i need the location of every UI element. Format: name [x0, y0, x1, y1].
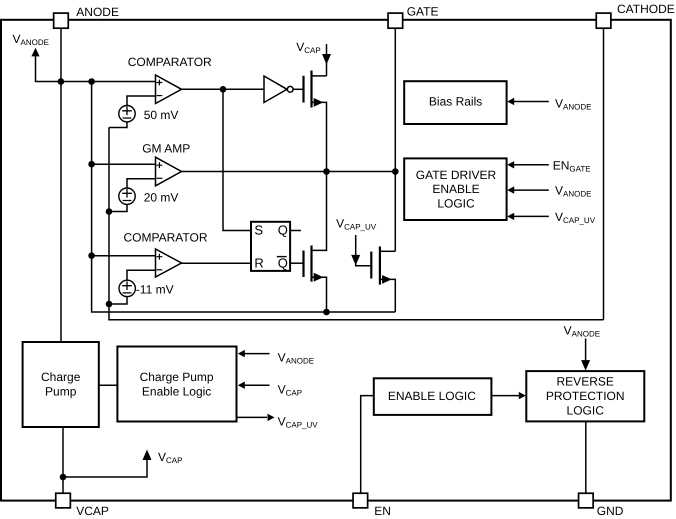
svg-text:LOGIC: LOGIC [567, 404, 605, 418]
svg-text:EN: EN [374, 504, 391, 518]
svg-text:GATE DRIVER: GATE DRIVER [416, 168, 497, 182]
svg-text:Q: Q [278, 255, 288, 270]
svg-text:R: R [254, 255, 263, 270]
svg-text:20 mV: 20 mV [144, 190, 179, 204]
svg-text:VCAP: VCAP [76, 504, 109, 518]
svg-text:GM AMP: GM AMP [142, 141, 190, 155]
svg-text:Bias Rails: Bias Rails [429, 95, 482, 109]
svg-text:REVERSE: REVERSE [557, 374, 614, 388]
svg-text:ENABLE LOGIC: ENABLE LOGIC [388, 389, 476, 403]
svg-text:Charge: Charge [41, 370, 81, 384]
svg-text:CATHODE: CATHODE [617, 2, 675, 16]
svg-text:COMPARATOR: COMPARATOR [128, 55, 212, 69]
svg-text:ANODE: ANODE [76, 5, 119, 19]
svg-text:GND: GND [597, 504, 624, 518]
svg-text:LOGIC: LOGIC [437, 197, 475, 211]
svg-text:Charge Pump: Charge Pump [140, 370, 214, 384]
svg-text:Pump: Pump [45, 385, 77, 399]
svg-text:PROTECTION: PROTECTION [546, 389, 625, 403]
svg-text:GATE: GATE [407, 5, 439, 19]
svg-text:-11 mV: -11 mV [136, 282, 174, 296]
svg-text:50 mV: 50 mV [144, 108, 179, 122]
svg-text:Enable Logic: Enable Logic [142, 385, 211, 399]
svg-text:ENABLE: ENABLE [432, 182, 479, 196]
svg-text:COMPARATOR: COMPARATOR [124, 231, 208, 245]
svg-text:S: S [254, 223, 263, 238]
svg-text:Q: Q [278, 223, 288, 238]
